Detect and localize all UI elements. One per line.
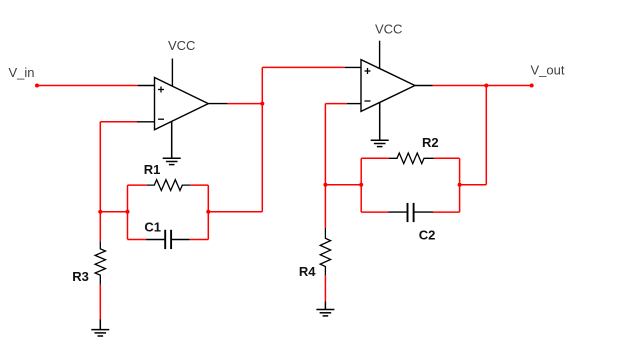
ground (U2) — [371, 103, 389, 147]
wire RC loop 2 left edge (red) — [360, 158, 362, 212]
wire junction to RC loop 2 (red) — [325, 184, 361, 186]
node feedback 2 left junction — [323, 183, 327, 187]
wire U2 +input stub (black) — [345, 66, 361, 68]
ground (U1) — [163, 121, 181, 164]
node RC loop 1 left — [126, 210, 130, 214]
node RC loop 2 left — [359, 183, 363, 187]
wire RC loop 1 top left (red) — [128, 184, 147, 186]
wire junction to RC loop 1 (red) — [100, 211, 127, 213]
resistor R3 — [95, 241, 105, 284]
node RC loop 2 right — [458, 183, 462, 187]
wire interstage top horizontal (red) — [262, 66, 344, 68]
wire U2 output stub (black) — [415, 85, 433, 87]
svg-text:V_in: V_in — [9, 65, 35, 80]
wire U1 +input stub (black) — [138, 85, 155, 87]
node V_in terminal dot — [35, 84, 39, 88]
wire RC loop 2 bottom right (red) — [433, 211, 460, 213]
svg-text:VCC: VCC — [375, 22, 402, 37]
wire U1 output (red) — [228, 103, 263, 105]
wire U1 output stub (black) — [208, 103, 227, 105]
ground (R4) — [316, 302, 334, 316]
svg-text:R2: R2 — [422, 135, 439, 150]
U2 pin mark + — [365, 68, 371, 74]
node V_out terminal dot — [530, 84, 534, 88]
wire RC loop 1 bottom right (red) — [190, 239, 209, 241]
U1 pin mark - — [158, 118, 164, 120]
node RC loop 1 right — [206, 210, 210, 214]
op-amp U2 — [361, 60, 415, 112]
wire R4 to ground (red) — [324, 275, 326, 301]
wire U2 -input horizontal (red) — [325, 103, 346, 105]
wire output feedback vertical (red) — [485, 85, 487, 184]
svg-text:C1: C1 — [144, 220, 161, 235]
resistor R2 — [389, 153, 434, 164]
wire RC loop 2 to output vertical (red) — [460, 184, 487, 186]
op-amp U1 — [155, 78, 209, 130]
wire feedback 2 left vertical (red) — [324, 104, 326, 228]
svg-text:C2: C2 — [419, 227, 436, 242]
U2 pin mark - — [365, 100, 371, 102]
wire RC loop 1 left edge (red) — [127, 185, 129, 239]
resistor R4 — [320, 228, 330, 275]
capacitor C2 — [389, 203, 434, 222]
capacitor C1 — [146, 230, 190, 249]
wire RC loop 2 top right (red) — [434, 157, 460, 159]
U1 pin mark + — [158, 87, 164, 93]
wire U2 -input stub (black) — [347, 103, 361, 105]
wire vertical interstage (red) — [261, 67, 263, 211]
wire VCC stub to U1 — [171, 59, 173, 87]
resistor R1 — [147, 180, 191, 191]
svg-text:R1: R1 — [144, 162, 161, 177]
wire feedback left vertical (red) — [99, 122, 101, 242]
wire U1 -input horizontal (red) — [100, 121, 137, 123]
svg-text:V_out: V_out — [531, 63, 565, 78]
svg-text:R3: R3 — [72, 269, 89, 284]
wire RC loop 2 right edge (red) — [459, 158, 461, 212]
svg-text:VCC: VCC — [168, 38, 195, 53]
wire RC loop 1 right edge (red) — [207, 185, 209, 239]
node feedback left junction — [98, 210, 102, 214]
wire V_in to U1 +input (red) — [37, 85, 138, 87]
wire R3 to ground (red) — [99, 285, 101, 320]
node U1 output junction — [260, 102, 264, 106]
node U2 output junction — [484, 84, 488, 88]
wire RC loop 2 top left (red) — [361, 157, 389, 159]
svg-text:R4: R4 — [299, 264, 316, 279]
wire RC loop 2 bottom left (red) — [361, 211, 388, 213]
wire VCC stub to U2 — [379, 41, 381, 69]
ground (R3) — [91, 320, 109, 337]
wire RC loop 1 top right (red) — [190, 184, 208, 186]
wire RC loop 1 to interstage vertical (red) — [208, 211, 262, 213]
wire U2 output to V_out (red) — [433, 85, 532, 87]
wire U1 -input stub (black) — [137, 121, 155, 123]
wire RC loop 1 bottom left (red) — [128, 239, 147, 241]
